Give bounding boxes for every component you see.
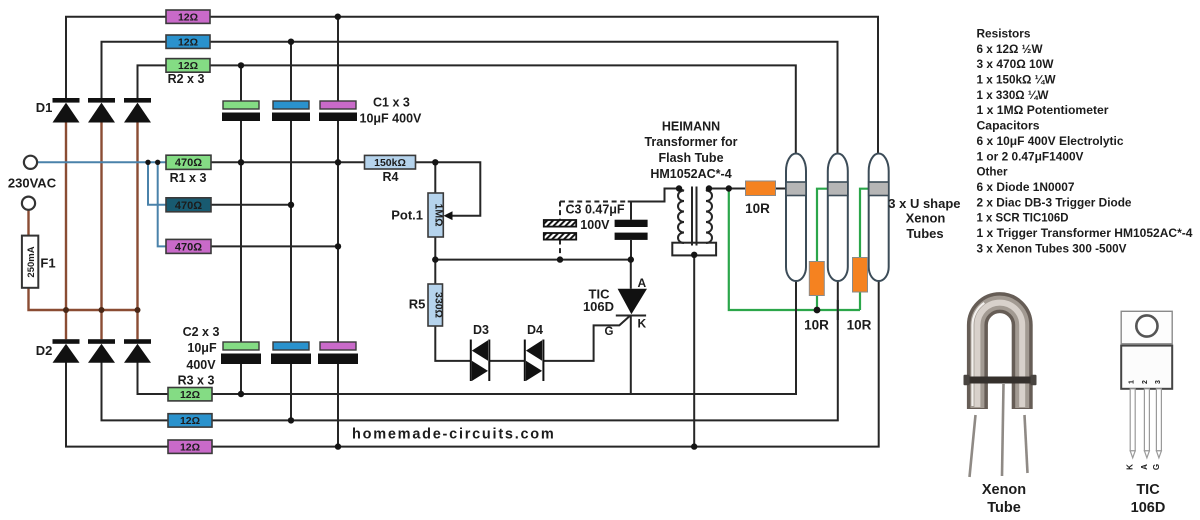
svg-text:1 x Trigger Transformer HM1052: 1 x Trigger Transformer HM1052AC*-4 [977,226,1193,240]
svg-text:D1: D1 [36,100,53,115]
svg-text:D4: D4 [527,323,543,337]
svg-text:1: 1 [1129,380,1136,384]
svg-text:10R: 10R [745,201,770,216]
svg-text:106D: 106D [1131,500,1166,516]
svg-text:K: K [638,317,647,331]
svg-text:1MΩ: 1MΩ [433,203,445,226]
svg-text:6 x Diode 1N0007: 6 x Diode 1N0007 [977,180,1075,194]
svg-text:R4: R4 [383,170,399,184]
svg-text:Resistors: Resistors [977,27,1031,41]
svg-text:Tube: Tube [987,500,1021,516]
svg-text:F1: F1 [40,256,55,271]
svg-text:1 x 330Ω ¼W: 1 x 330Ω ¼W [977,88,1049,102]
svg-text:3 x U shape: 3 x U shape [888,196,960,211]
svg-text:6 x 12Ω ½W: 6 x 12Ω ½W [977,42,1043,56]
svg-text:G: G [605,326,614,338]
svg-text:A: A [1140,464,1149,470]
svg-text:HM1052AC*-4: HM1052AC*-4 [650,167,731,181]
svg-text:3: 3 [1155,380,1162,384]
svg-text:470Ω: 470Ω [175,200,202,212]
svg-text:C2 x 3: C2 x 3 [183,325,220,339]
svg-text:Xenon: Xenon [982,482,1026,498]
svg-text:100V: 100V [580,218,610,232]
svg-text:R1 x 3: R1 x 3 [170,171,207,185]
svg-text:6 x 10μF 400V Electrolytic: 6 x 10μF 400V Electrolytic [977,134,1124,148]
svg-text:R5: R5 [409,297,426,312]
svg-text:1 x SCR TIC106D: 1 x SCR TIC106D [977,211,1069,225]
svg-text:2: 2 [1142,380,1149,384]
svg-text:1 x 1MΩ Potentiometer: 1 x 1MΩ Potentiometer [977,103,1109,117]
svg-text:C1 x 3: C1 x 3 [373,96,410,110]
svg-text:Xenon: Xenon [906,211,946,226]
svg-text:10R: 10R [804,318,829,333]
svg-text:Transformer for: Transformer for [644,135,737,149]
svg-text:12Ω: 12Ω [180,442,200,454]
svg-text:A: A [638,276,647,290]
svg-text:2 x Diac DB-3 Trigger Diode: 2 x Diac DB-3 Trigger Diode [977,195,1132,209]
svg-text:10μF: 10μF [187,341,217,355]
svg-text:3 x 470Ω 10W: 3 x 470Ω 10W [977,57,1054,71]
svg-text:10R: 10R [847,318,872,333]
svg-text:12Ω: 12Ω [180,415,200,427]
svg-text:R3 x 3: R3 x 3 [178,374,215,388]
svg-text:D2: D2 [36,343,53,358]
svg-text:K: K [1126,464,1135,470]
svg-text:homemade-circuits.com: homemade-circuits.com [352,427,556,443]
svg-text:12Ω: 12Ω [178,37,198,49]
svg-text:1 x 150kΩ ¼W: 1 x 150kΩ ¼W [977,73,1056,87]
svg-text:470Ω: 470Ω [175,157,202,169]
svg-text:330Ω: 330Ω [432,292,444,318]
svg-text:HEIMANN: HEIMANN [662,119,720,133]
svg-text:G: G [1152,464,1161,470]
svg-text:12Ω: 12Ω [178,60,198,72]
svg-text:Flash Tube: Flash Tube [658,151,723,165]
svg-text:Other: Other [977,165,1008,179]
svg-text:Tubes: Tubes [906,226,943,241]
svg-text:250mA: 250mA [26,246,37,277]
svg-text:TIC: TIC [1136,482,1160,498]
svg-text:12Ω: 12Ω [180,389,200,401]
svg-text:400V: 400V [186,358,216,372]
svg-text:Capacitors: Capacitors [977,119,1040,133]
svg-text:Pot.1: Pot.1 [391,208,423,223]
svg-text:1 or 2 0.47μF1400V: 1 or 2 0.47μF1400V [977,149,1085,163]
svg-text:10μF 400V: 10μF 400V [360,112,423,126]
svg-text:D3: D3 [473,323,489,337]
svg-text:R2 x 3: R2 x 3 [168,72,205,86]
svg-text:C3 0.47μF: C3 0.47μF [566,203,625,217]
svg-text:106D: 106D [583,299,614,314]
svg-text:470Ω: 470Ω [175,241,202,253]
svg-text:230VAC: 230VAC [8,176,57,191]
svg-text:3 x Xenon Tubes 300 -500V: 3 x Xenon Tubes 300 -500V [977,241,1128,255]
svg-text:150kΩ: 150kΩ [374,157,406,169]
svg-text:12Ω: 12Ω [178,12,198,24]
